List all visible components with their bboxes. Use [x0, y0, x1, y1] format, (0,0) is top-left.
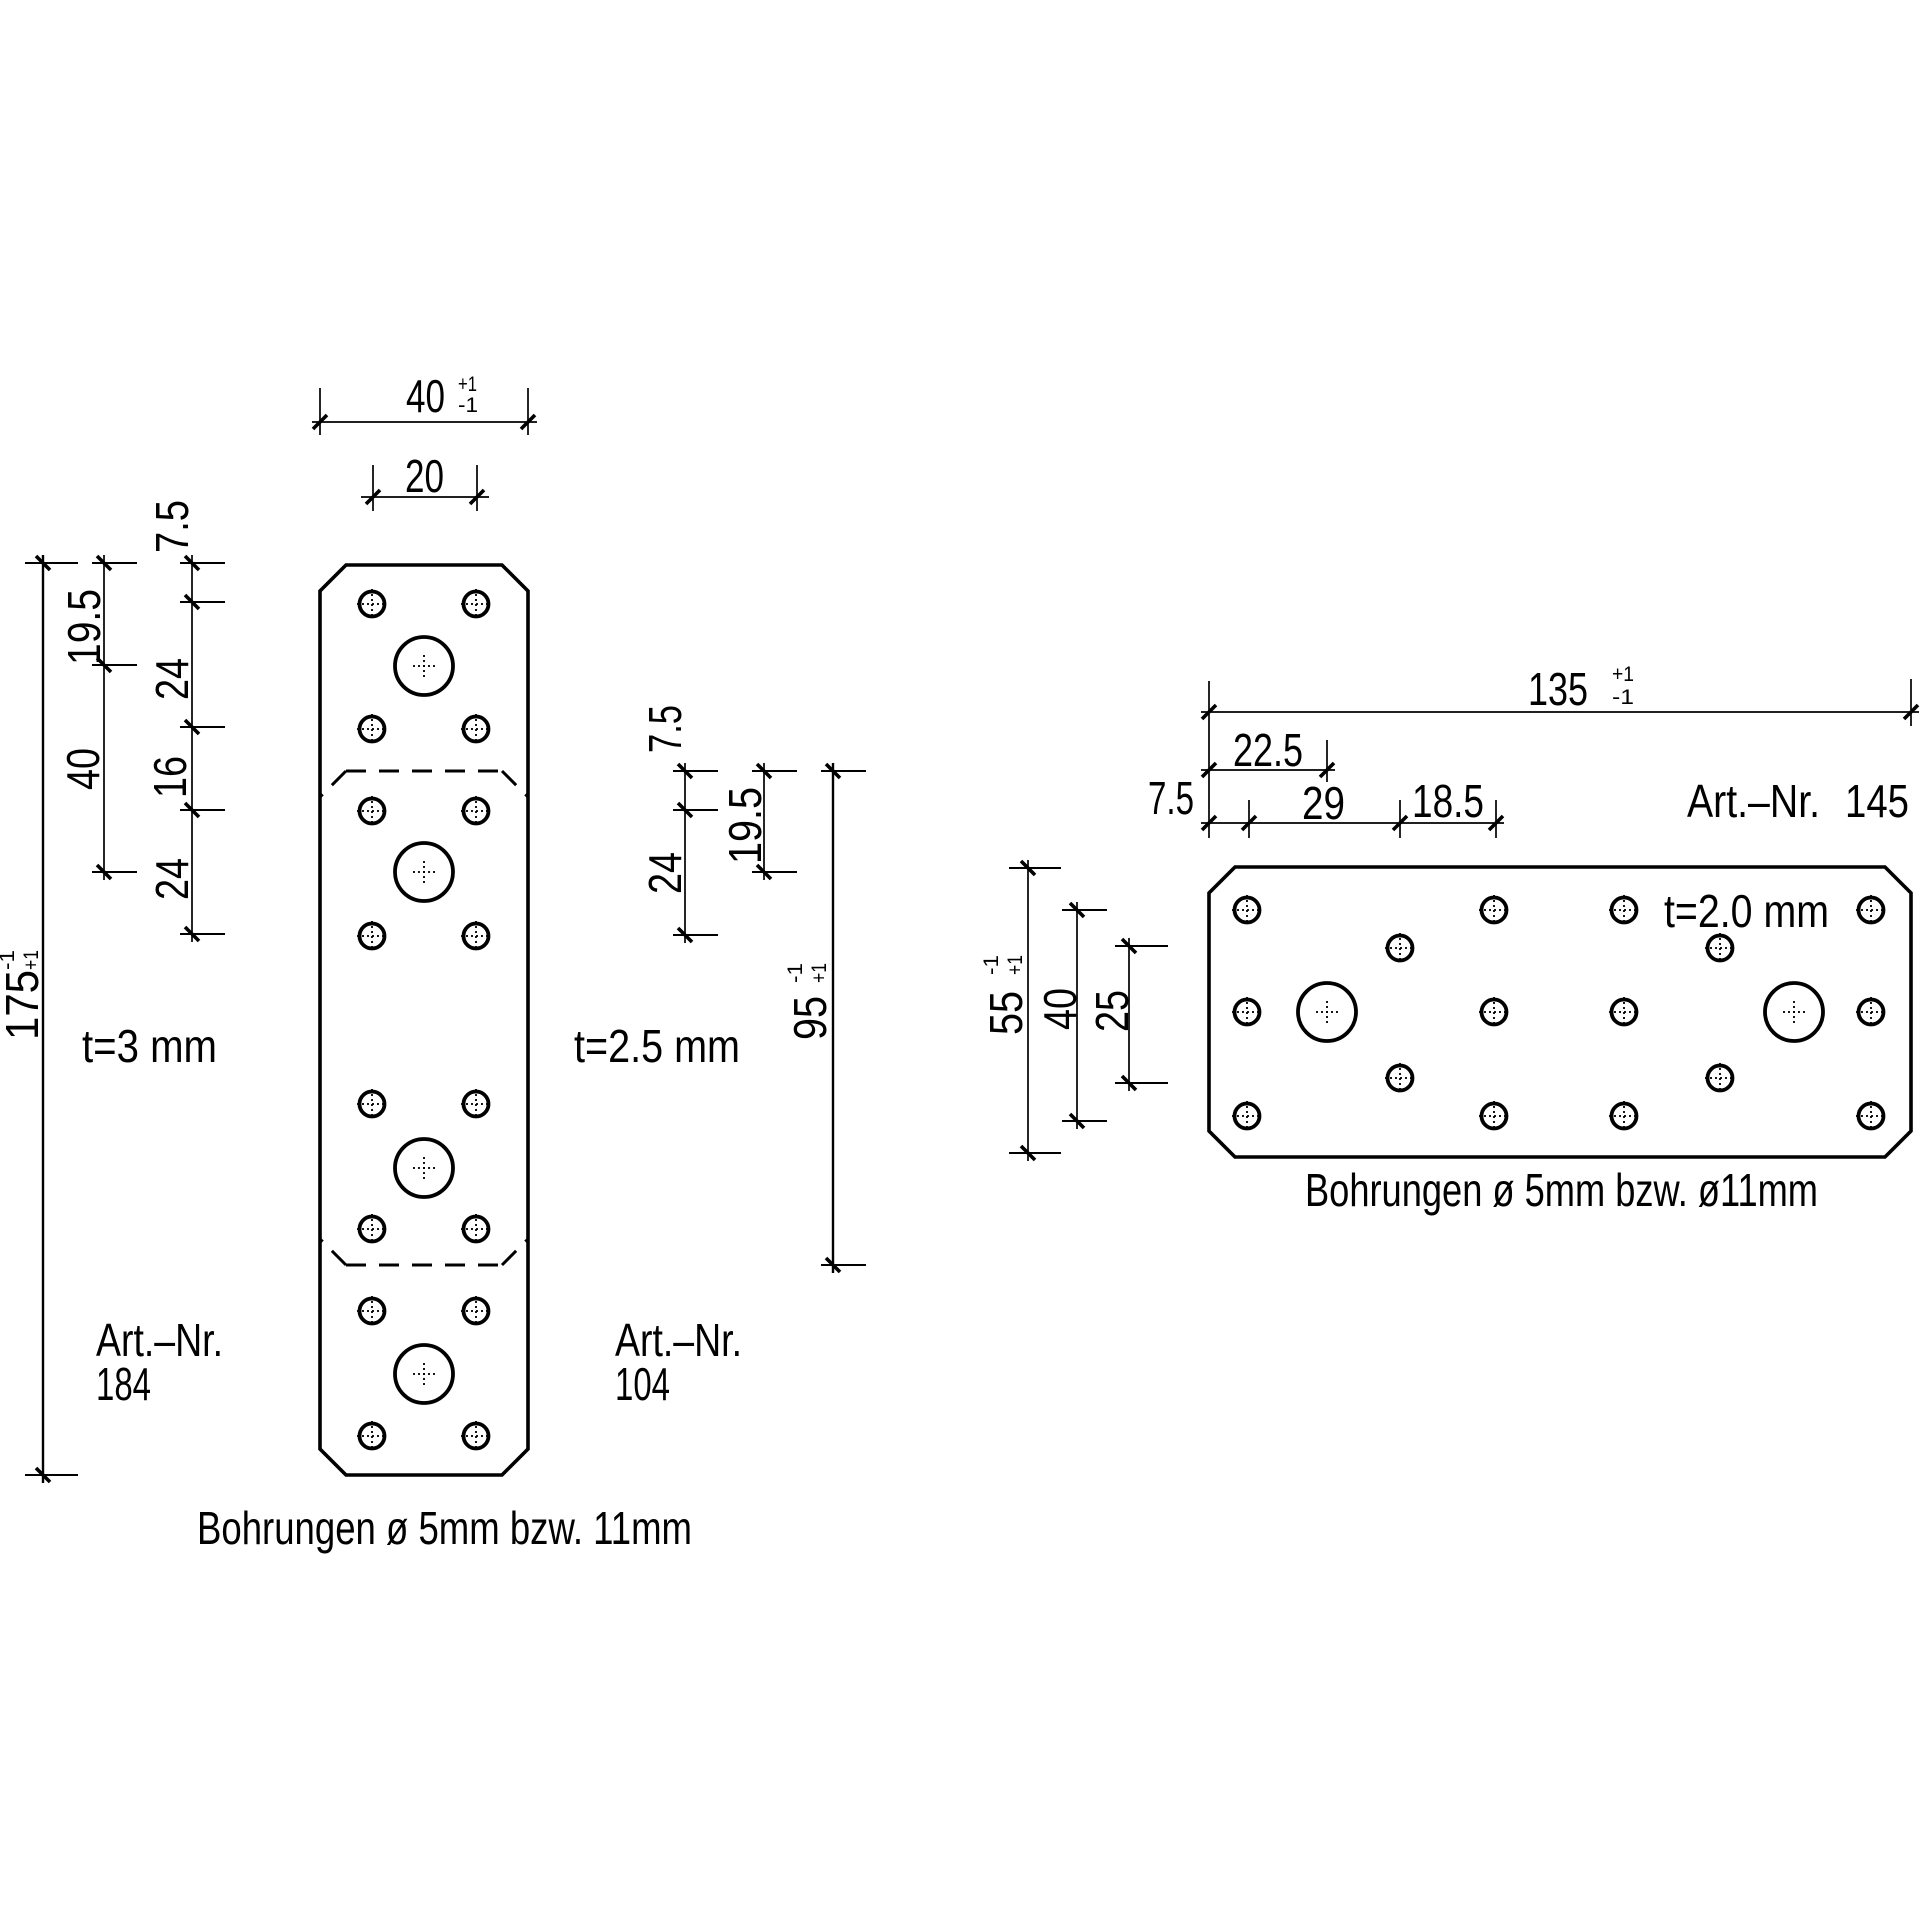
svg-text:20: 20 — [405, 450, 444, 502]
svg-text:29: 29 — [1302, 777, 1345, 829]
svg-text:40: 40 — [57, 748, 109, 790]
svg-text:19.5: 19.5 — [719, 787, 771, 864]
svg-text:-1: -1 — [458, 394, 478, 417]
svg-text:7.5: 7.5 — [1148, 772, 1194, 824]
svg-text:22.5: 22.5 — [1233, 724, 1303, 776]
svg-text:+1: +1 — [1612, 663, 1634, 686]
svg-text:40: 40 — [406, 370, 445, 422]
svg-text:7.5: 7.5 — [639, 705, 691, 753]
svg-text:175: 175 — [0, 970, 48, 1040]
small holes 5mm of plate 145 middle columns — [1388, 936, 1413, 961]
svg-text:Bohrungen ø 5mm bzw. ø11mm: Bohrungen ø 5mm bzw. ø11mm — [1305, 1164, 1818, 1216]
plate Art.-Nr. 184 outline (40x175 flat connector, chamfered corners) — [320, 565, 528, 1475]
svg-text:16: 16 — [144, 756, 196, 798]
svg-text:40: 40 — [1034, 988, 1086, 1030]
big holes 11mm of plate 145 — [1298, 983, 1356, 1041]
dimension 22.5 (big hole position) — [1326, 740, 1328, 782]
svg-text:24: 24 — [146, 858, 198, 900]
svg-text:-1: -1 — [784, 963, 807, 983]
svg-text:+1: +1 — [808, 963, 831, 983]
svg-text:95: 95 — [784, 996, 836, 1040]
svg-text:145: 145 — [1845, 775, 1909, 827]
dimension 135 +1/-1 (plate length) — [1208, 681, 1210, 838]
svg-text:19.5: 19.5 — [58, 589, 110, 665]
svg-text:18.5: 18.5 — [1412, 775, 1484, 827]
small holes 5mm of plate 145 outer columns — [1235, 898, 1260, 923]
svg-text:24: 24 — [146, 658, 198, 700]
svg-text:7.5: 7.5 — [146, 500, 198, 553]
plate Art.-Nr. 145 outline (135x55 flat connector, chamfered corners) — [1209, 867, 1911, 1157]
small holes 5mm of plate 184 (two columns) — [360, 592, 385, 617]
big holes 11mm of plate 184 — [395, 637, 453, 695]
dimension 40 +1/-1 (plate width) — [319, 388, 321, 435]
svg-text:-1: -1 — [1612, 686, 1634, 709]
dimension 95 +1/-1 (length of plate 104) — [832, 763, 834, 1273]
svg-text:184: 184 — [96, 1358, 151, 1410]
dimension 40 (outer hole rows of plate 145) — [1076, 902, 1078, 1129]
svg-text:-1: -1 — [980, 955, 1003, 975]
dimension chain 7.5 / 29 / 18.5 of plate 145 — [1248, 800, 1250, 838]
svg-text:t=3 mm: t=3 mm — [82, 1020, 217, 1072]
dashed top edge of overlaid plate Art.-Nr. 104 (95mm variant) — [346, 770, 502, 773]
svg-text:t=2.5 mm: t=2.5 mm — [574, 1020, 740, 1072]
dimension 175 +1/-1 (plate length) — [42, 555, 44, 1483]
dimension chain 7.5 / 24 of plate 104 — [684, 763, 686, 943]
svg-text:+1: +1 — [458, 373, 477, 396]
dimension 19.5 of plate 104 — [763, 763, 765, 880]
dimension 25 (middle hole rows of plate 145) — [1128, 938, 1130, 1091]
svg-text:25: 25 — [1086, 990, 1138, 1032]
svg-text:Bohrungen ø 5mm bzw. 11mm: Bohrungen ø 5mm bzw. 11mm — [197, 1502, 692, 1554]
svg-text:+1: +1 — [20, 950, 43, 970]
svg-text:135: 135 — [1528, 663, 1588, 715]
dimension 55 +1/-1 (plate height) — [1027, 860, 1029, 1161]
svg-text:Art.–Nr.: Art.–Nr. — [1687, 775, 1820, 827]
svg-text:t=2.0 mm: t=2.0 mm — [1664, 885, 1829, 937]
svg-text:-1: -1 — [0, 950, 19, 970]
svg-text:24: 24 — [639, 852, 691, 894]
dimension 20 (hole column spacing) — [372, 465, 374, 511]
svg-text:104: 104 — [615, 1358, 670, 1410]
dashed bottom edge of overlaid plate Art.-Nr. 104 — [346, 1264, 502, 1267]
dimension chain 19.5 / 40 (big hole positions) — [103, 555, 105, 880]
svg-text:55: 55 — [980, 991, 1032, 1035]
svg-text:+1: +1 — [1004, 955, 1027, 975]
dimension chain 7.5 / 24 / 16 / 24 (small hole rows) — [191, 555, 193, 942]
